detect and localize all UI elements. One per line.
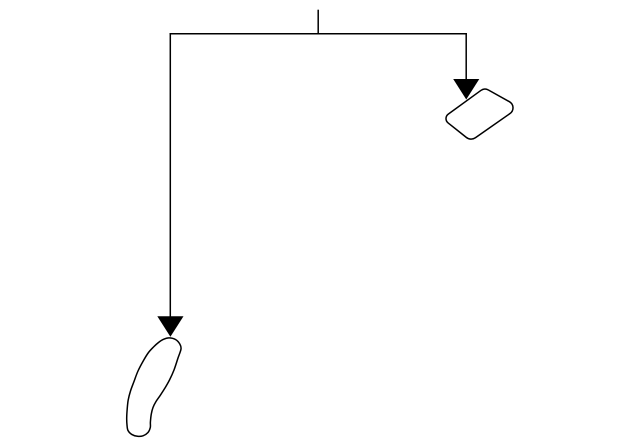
node: rotated rounded box xyxy=(446,89,513,139)
wire top stub xyxy=(317,10,319,34)
wire left vertical xyxy=(169,33,171,317)
arrowhead left xyxy=(157,316,183,337)
arrowhead right xyxy=(453,79,479,100)
wire right vertical xyxy=(465,33,467,80)
node: bent capsule xyxy=(127,338,181,437)
wire horizontal xyxy=(170,33,467,35)
